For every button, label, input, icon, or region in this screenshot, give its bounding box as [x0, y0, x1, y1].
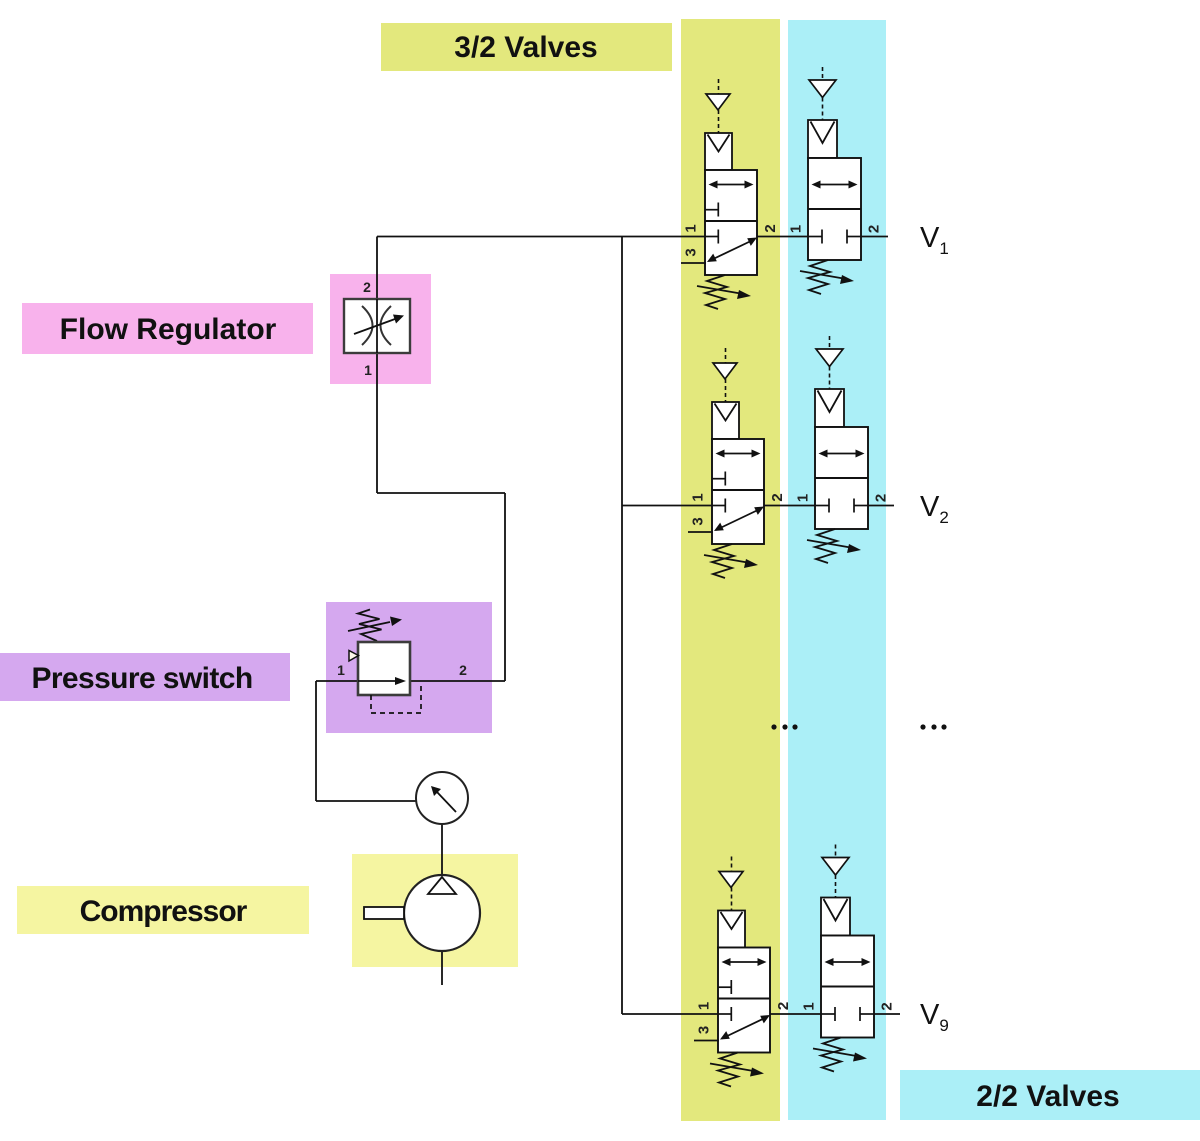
3/2 valve V2: [688, 348, 786, 578]
svg-text:2: 2: [459, 662, 467, 678]
wire: pressure switch port 2 line: [410, 680, 505, 682]
Flow Regulator label: [22, 303, 313, 354]
svg-text:Compressor: Compressor: [80, 895, 248, 928]
compressor highlight box: [352, 854, 518, 967]
wire: row3 line: [622, 1013, 900, 1015]
svg-text:Pressure switch: Pressure switch: [31, 662, 252, 695]
pressure switch highlight box: [326, 602, 492, 733]
wire: pressure switch port 1 line: [316, 680, 358, 682]
svg-text:2: 2: [363, 279, 371, 295]
ellipsis dots right: [920, 724, 925, 729]
flow regulator right arc: [381, 306, 392, 345]
flow regulator left arc: [362, 306, 373, 345]
wire: down from port 1: [315, 681, 317, 801]
compressor left port: [364, 907, 404, 919]
svg-text:3/2 Valves: 3/2 Valves: [454, 31, 597, 64]
flow regulator highlight box: [330, 274, 431, 384]
gauge needle: [437, 792, 456, 812]
Compressor label: [17, 886, 309, 934]
flow regulator body: [344, 299, 410, 353]
flow regulator wire through: [376, 299, 378, 353]
svg-text:Flow Regulator: Flow Regulator: [60, 313, 277, 346]
pressure switch inner arrow: [358, 680, 397, 682]
wire: branch vertical bus: [621, 237, 623, 1015]
3/2 valve V1: [681, 79, 779, 309]
2/2 valves column band: [788, 20, 886, 1120]
wire: row2 line: [622, 505, 894, 507]
pressure switch spring arrow: [348, 622, 390, 631]
gauge: [416, 772, 468, 824]
pressure switch spring: [358, 610, 382, 642]
2/2 Valves label: [900, 1070, 1200, 1120]
pressure switch body: [358, 642, 410, 695]
pressure switch dashed feedback: [371, 684, 421, 713]
wire: horizontal jog: [377, 492, 505, 494]
2/2 valve V9: [801, 845, 896, 1072]
svg-text:2/2 Valves: 2/2 Valves: [976, 1080, 1119, 1113]
wire: gauge to compressor: [441, 824, 443, 876]
ellipsis dots left: [771, 724, 776, 729]
pressure switch left pilot triangle: [349, 651, 359, 662]
wire: down to pressure switch port 2: [504, 493, 506, 681]
wire: to gauge: [316, 800, 418, 802]
flow regulator arrow: [354, 319, 395, 334]
compressor circle: [404, 875, 480, 951]
2/2 valve V2: [795, 336, 890, 563]
3/2 valve V9: [694, 857, 792, 1087]
wire: compressor bottom stub: [441, 951, 443, 985]
2/2 valve V1: [788, 67, 883, 294]
wire: row1 supply line: [377, 236, 888, 238]
Pressure switch label: [0, 653, 290, 701]
svg-text:1: 1: [364, 362, 372, 378]
3/2 Valves label: [381, 23, 672, 71]
svg-text:1: 1: [337, 662, 345, 678]
3/2 valves column band: [681, 19, 780, 1121]
wire: left vertical through flow regulator: [376, 237, 378, 494]
compressor triangle: [428, 877, 456, 894]
